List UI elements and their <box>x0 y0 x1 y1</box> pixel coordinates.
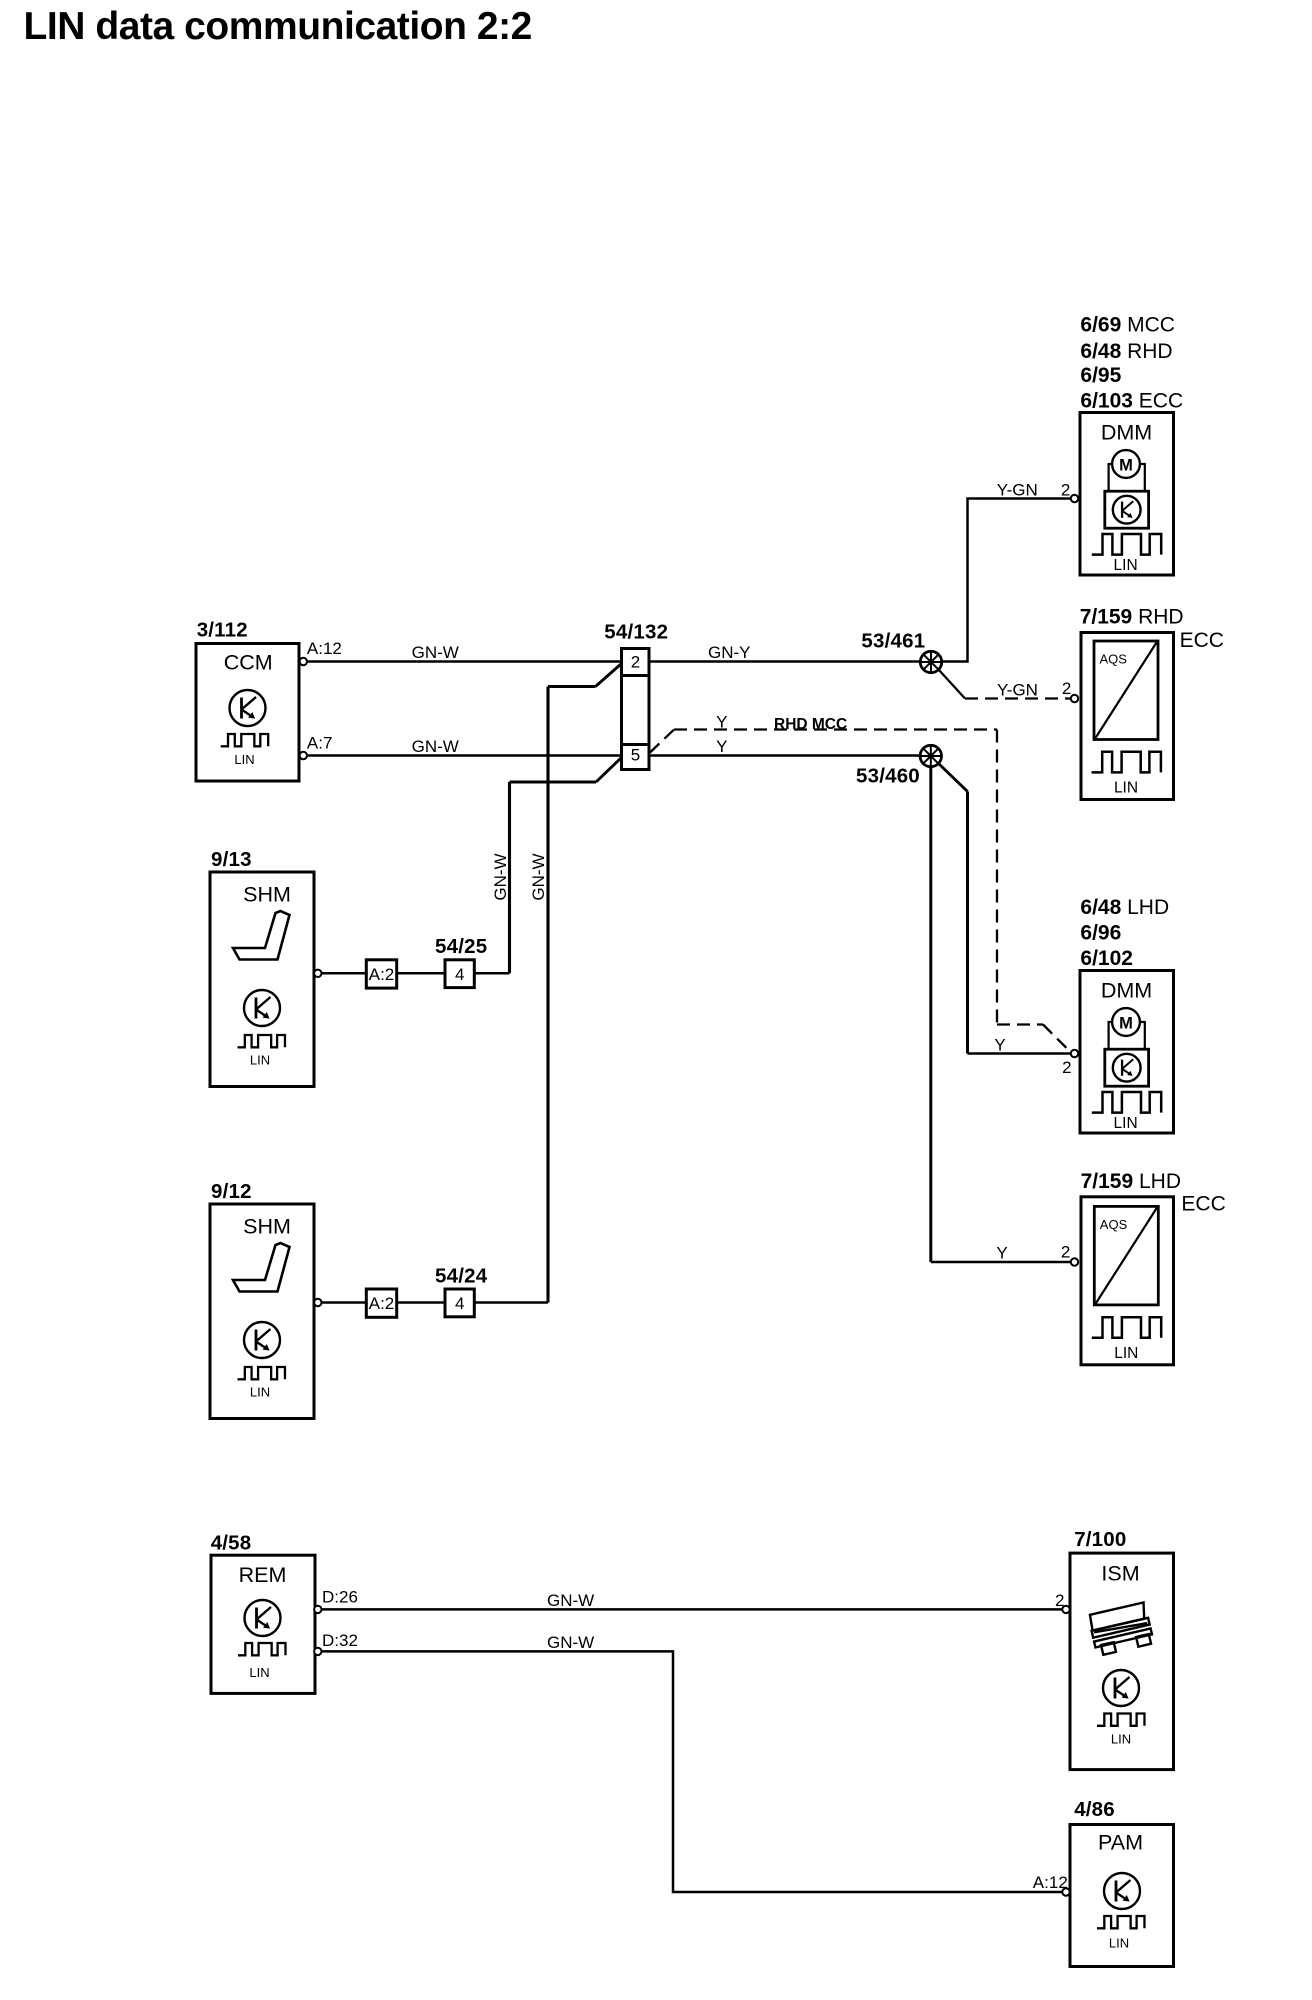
svg-text:2: 2 <box>1061 480 1070 499</box>
svg-text:Y: Y <box>716 737 727 756</box>
svg-text:6/69 MCC: 6/69 MCC <box>1080 314 1175 337</box>
svg-text:LIN: LIN <box>1114 780 1138 797</box>
svg-text:M: M <box>1119 456 1133 474</box>
svg-text:M: M <box>1119 1014 1133 1032</box>
svg-text:PAM: PAM <box>1098 1830 1143 1854</box>
svg-text:5: 5 <box>631 746 640 765</box>
svg-text:D:26: D:26 <box>322 1587 358 1606</box>
svg-text:6/96: 6/96 <box>1080 922 1121 945</box>
svg-text:GN-W: GN-W <box>547 1591 594 1610</box>
svg-text:6/95: 6/95 <box>1080 364 1121 387</box>
svg-text:Y: Y <box>996 1244 1007 1263</box>
svg-text:D:32: D:32 <box>322 1631 358 1650</box>
svg-text:GN-W: GN-W <box>547 1633 594 1652</box>
svg-text:ECC: ECC <box>1180 629 1224 652</box>
svg-text:GN-W: GN-W <box>412 643 459 662</box>
svg-text:Y-GN: Y-GN <box>997 481 1038 500</box>
svg-text:LIN: LIN <box>1114 1115 1138 1132</box>
svg-text:LIN: LIN <box>250 1385 270 1400</box>
svg-text:2: 2 <box>1055 1591 1064 1610</box>
svg-text:LIN: LIN <box>1114 557 1138 574</box>
svg-text:LIN: LIN <box>1109 1935 1129 1950</box>
svg-text:4: 4 <box>455 965 464 984</box>
svg-text:DMM: DMM <box>1101 421 1152 445</box>
svg-text:A:2: A:2 <box>369 1294 395 1313</box>
svg-text:CCM: CCM <box>224 650 273 674</box>
svg-text:DMM: DMM <box>1101 979 1152 1003</box>
svg-text:9/13: 9/13 <box>211 848 252 871</box>
svg-text:Y: Y <box>994 1036 1005 1055</box>
svg-text:2: 2 <box>1062 679 1071 698</box>
svg-text:2: 2 <box>1062 1058 1071 1077</box>
svg-text:4: 4 <box>455 1294 464 1313</box>
svg-text:GN-Y: GN-Y <box>708 643 751 662</box>
svg-text:A:12: A:12 <box>307 639 342 658</box>
svg-text:A:12: A:12 <box>1033 1873 1068 1892</box>
svg-text:AQS: AQS <box>1100 652 1128 667</box>
svg-text:3/112: 3/112 <box>197 618 248 641</box>
svg-text:Y: Y <box>716 713 727 732</box>
svg-text:6/48 RHD: 6/48 RHD <box>1080 340 1172 363</box>
svg-text:ECC: ECC <box>1181 1193 1225 1216</box>
svg-text:53/460: 53/460 <box>856 765 920 788</box>
svg-text:A:7: A:7 <box>307 733 333 752</box>
svg-text:GN-W: GN-W <box>529 853 548 900</box>
svg-text:AQS: AQS <box>1100 1217 1128 1232</box>
svg-text:RHD MCC: RHD MCC <box>774 716 847 733</box>
svg-text:GN-W: GN-W <box>491 853 510 900</box>
svg-text:Y-GN: Y-GN <box>997 681 1038 700</box>
svg-text:7/159 RHD: 7/159 RHD <box>1080 605 1184 628</box>
svg-text:REM: REM <box>239 1563 287 1587</box>
svg-text:LIN data communication 2:2: LIN data communication 2:2 <box>24 5 532 48</box>
svg-text:A:2: A:2 <box>369 965 395 984</box>
svg-text:LIN: LIN <box>1111 1732 1131 1747</box>
svg-text:54/25: 54/25 <box>435 935 487 958</box>
svg-text:4/58: 4/58 <box>211 1531 252 1554</box>
svg-text:6/103 ECC: 6/103 ECC <box>1080 389 1183 412</box>
svg-text:LIN: LIN <box>234 752 254 767</box>
svg-text:53/461: 53/461 <box>861 630 925 653</box>
svg-text:2: 2 <box>1061 1243 1070 1262</box>
svg-text:54/24: 54/24 <box>435 1265 488 1288</box>
svg-text:4/86: 4/86 <box>1074 1798 1115 1821</box>
svg-text:LIN: LIN <box>249 1665 269 1680</box>
svg-text:6/102: 6/102 <box>1080 947 1133 970</box>
svg-text:ISM: ISM <box>1101 1562 1139 1586</box>
svg-text:GN-W: GN-W <box>412 737 459 756</box>
svg-text:6/48 LHD: 6/48 LHD <box>1080 896 1169 919</box>
svg-text:SHM: SHM <box>243 883 291 907</box>
svg-text:54/132: 54/132 <box>604 621 668 644</box>
svg-text:7/100: 7/100 <box>1074 1528 1126 1551</box>
svg-text:LIN: LIN <box>250 1053 270 1068</box>
svg-text:2: 2 <box>631 653 640 672</box>
svg-text:SHM: SHM <box>243 1215 291 1239</box>
svg-text:LIN: LIN <box>1114 1345 1138 1362</box>
svg-text:9/12: 9/12 <box>211 1180 252 1203</box>
svg-text:7/159 LHD: 7/159 LHD <box>1081 1170 1181 1193</box>
